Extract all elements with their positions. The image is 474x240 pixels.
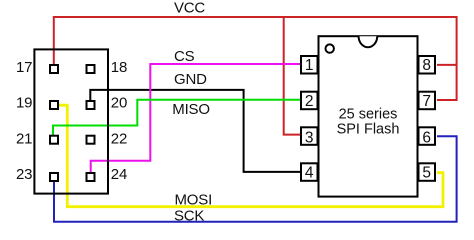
svg-text:22: 22 xyxy=(111,130,127,147)
svg-text:20: 20 xyxy=(111,95,127,112)
svg-text:25 series: 25 series xyxy=(339,106,398,122)
svg-text:17: 17 xyxy=(16,59,32,76)
svg-text:19: 19 xyxy=(16,95,32,112)
svg-text:21: 21 xyxy=(16,130,32,147)
svg-text:4: 4 xyxy=(305,165,314,182)
svg-text:3: 3 xyxy=(305,129,314,146)
svg-text:MOSI: MOSI xyxy=(175,191,213,208)
svg-text:VCC: VCC xyxy=(174,0,205,17)
svg-text:2: 2 xyxy=(305,93,314,110)
svg-text:CS: CS xyxy=(174,48,195,65)
svg-text:24: 24 xyxy=(111,166,127,183)
svg-text:18: 18 xyxy=(111,59,127,76)
svg-text:5: 5 xyxy=(422,165,431,182)
svg-text:SCK: SCK xyxy=(174,208,204,225)
svg-text:23: 23 xyxy=(16,166,32,183)
svg-text:6: 6 xyxy=(422,129,431,146)
svg-text:7: 7 xyxy=(422,93,431,110)
svg-text:MISO: MISO xyxy=(172,101,210,118)
svg-text:8: 8 xyxy=(422,57,431,74)
svg-text:GND: GND xyxy=(174,71,207,88)
svg-text:1: 1 xyxy=(305,57,314,74)
svg-text:SPI Flash: SPI Flash xyxy=(337,122,400,138)
